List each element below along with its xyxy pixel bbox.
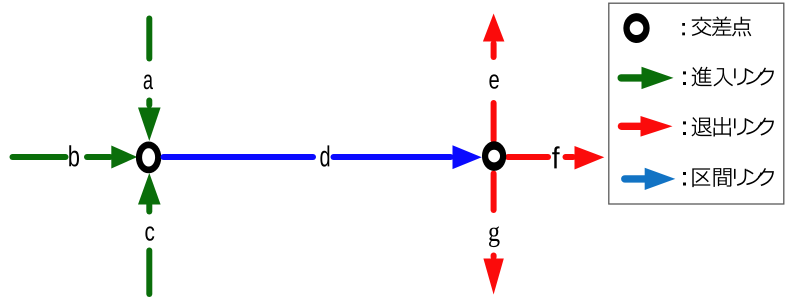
legend box bbox=[609, 3, 784, 204]
legend symbol: red exit-link arrow bbox=[622, 116, 673, 137]
legend text: 退出リンク (exit link) bbox=[683, 117, 774, 137]
link g: exit link to bottom (red) bbox=[483, 174, 503, 295]
link f: exit link to right (red) bbox=[508, 146, 604, 170]
label d bbox=[320, 145, 329, 166]
link a: entry link from top (green) bbox=[138, 19, 161, 142]
legend symbol: green entry-link arrow bbox=[621, 67, 673, 89]
link b: entry link from left (green) bbox=[13, 146, 138, 169]
legend symbol: blue section-link arrow bbox=[625, 168, 676, 190]
legend text: 区間リンク (section link) bbox=[683, 168, 774, 187]
link c: entry link from bottom (green) bbox=[138, 173, 161, 294]
label g bbox=[489, 226, 500, 247]
label e bbox=[489, 74, 498, 88]
link d: section link between intersections (blue) bbox=[164, 145, 482, 169]
label f bbox=[552, 146, 559, 168]
label c bbox=[145, 226, 154, 240]
node N1: left intersection (black ring) bbox=[136, 142, 161, 174]
link e: exit link to top (red) bbox=[483, 14, 505, 141]
legend text: 進入リンク (entry link) bbox=[683, 67, 774, 87]
node N2: right intersection (black ring) bbox=[482, 141, 506, 171]
legend symbol: intersection ring bbox=[623, 13, 649, 43]
legend text: 交差点 (intersection) bbox=[682, 17, 751, 37]
label a bbox=[144, 75, 153, 90]
label b bbox=[69, 145, 79, 166]
